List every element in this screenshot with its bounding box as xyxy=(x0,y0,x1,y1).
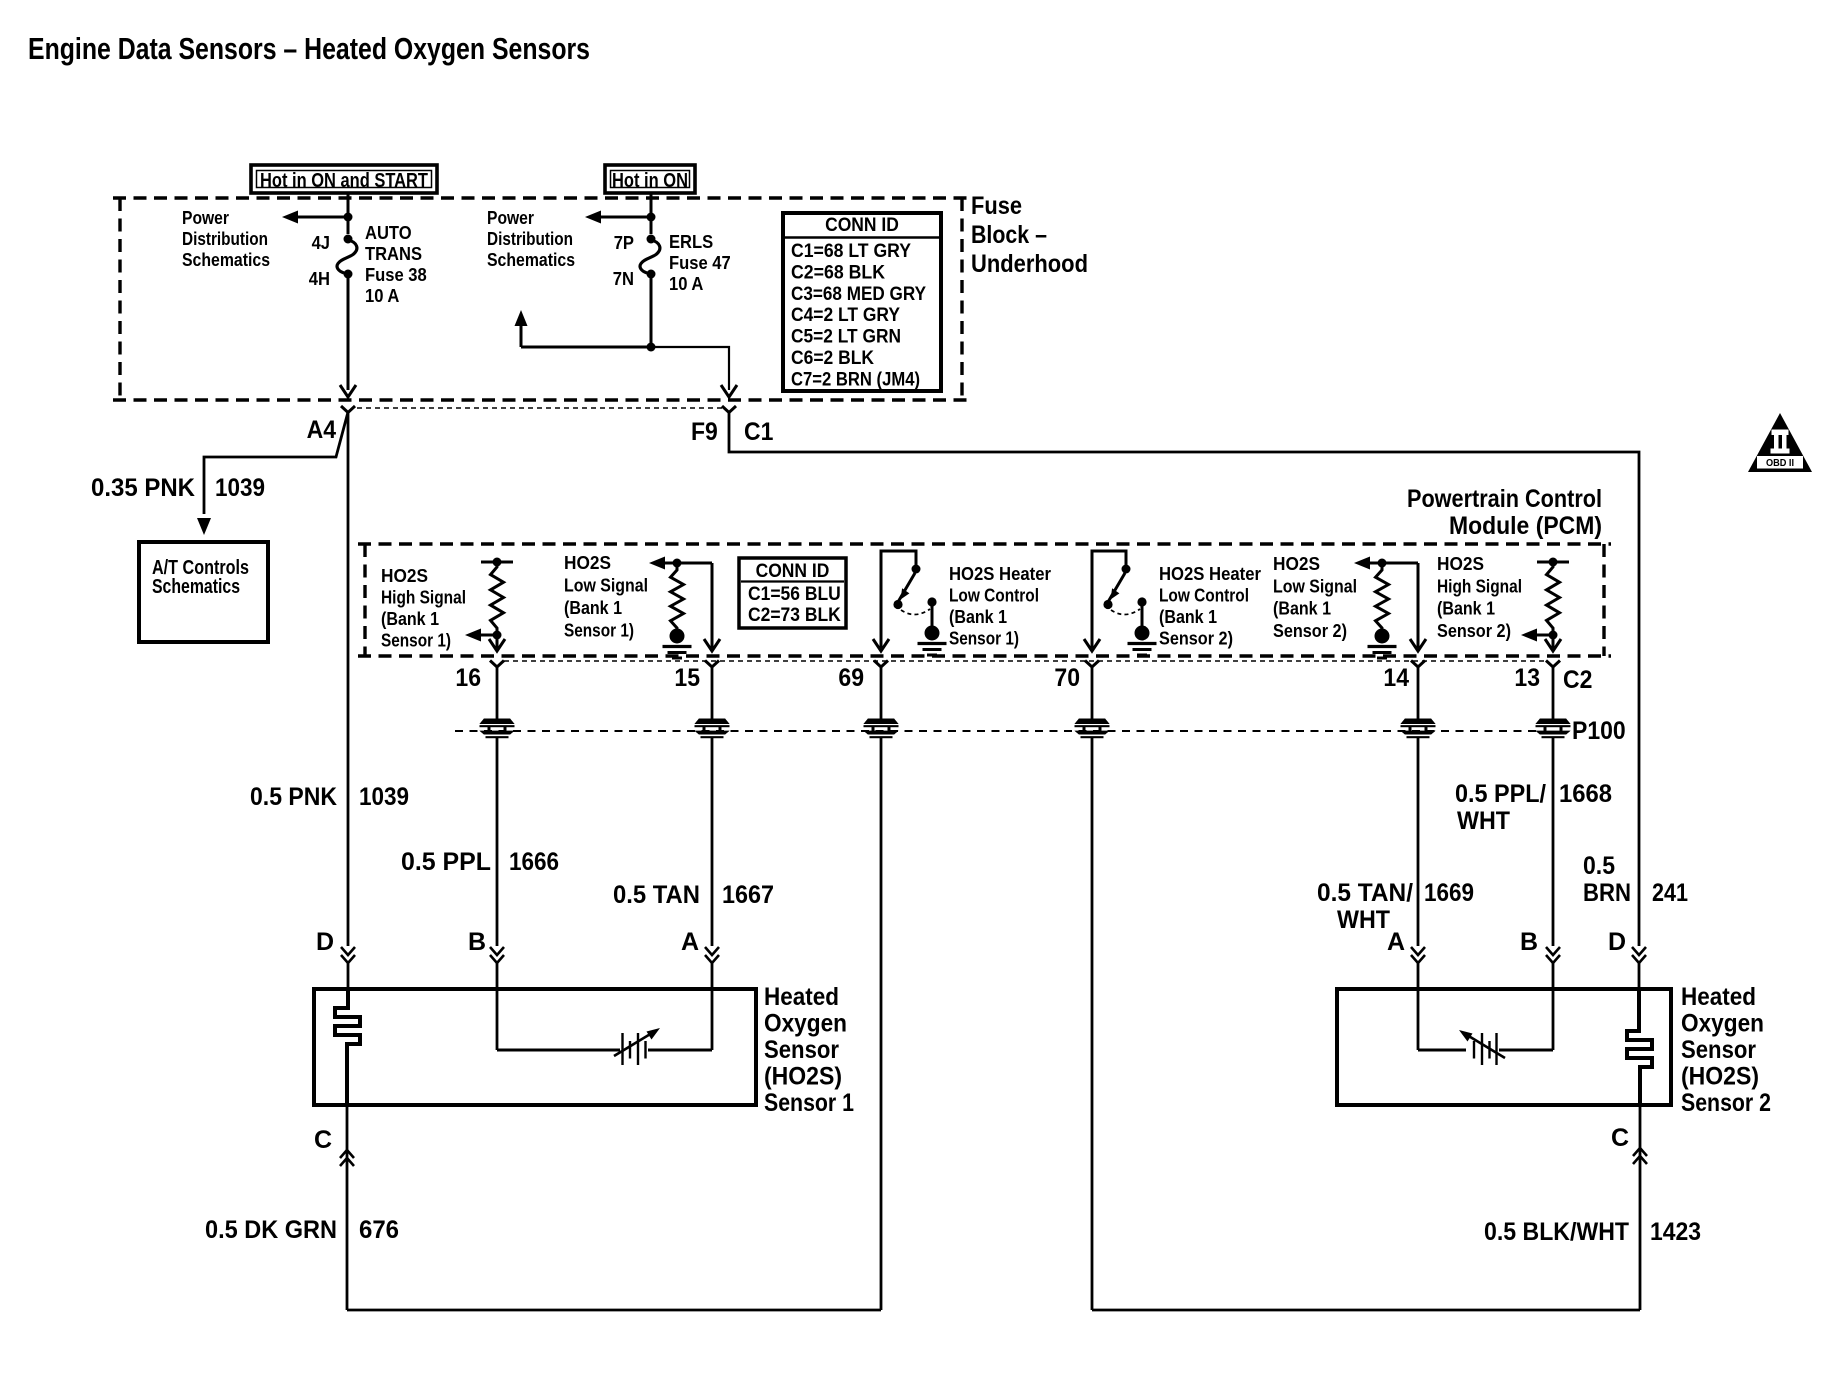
svg-text:C6=2 BLK: C6=2 BLK xyxy=(791,348,874,369)
svg-text:(Bank 1: (Bank 1 xyxy=(564,598,622,618)
svg-text:BRN: BRN xyxy=(1583,879,1631,907)
svg-text:Block –: Block – xyxy=(971,221,1047,249)
svg-text:HO2S Heater: HO2S Heater xyxy=(949,564,1051,584)
svg-text:Distribution: Distribution xyxy=(487,229,573,249)
svg-text:C5=2 LT GRN: C5=2 LT GRN xyxy=(791,327,901,348)
svg-text:CONN ID: CONN ID xyxy=(825,215,899,236)
svg-text:Schematics: Schematics xyxy=(182,250,270,270)
svg-text:14: 14 xyxy=(1383,664,1409,692)
svg-text:0.5 TAN: 0.5 TAN xyxy=(613,881,700,909)
svg-text:HO2S: HO2S xyxy=(1273,554,1320,574)
svg-text:High Signal: High Signal xyxy=(1437,576,1522,596)
svg-text:Distribution: Distribution xyxy=(182,229,268,249)
svg-text:P100: P100 xyxy=(1572,717,1626,745)
svg-text:Sensor 1): Sensor 1) xyxy=(949,629,1019,649)
svg-text:A: A xyxy=(681,928,699,956)
svg-text:Oxygen: Oxygen xyxy=(764,1010,847,1038)
svg-text:WHT: WHT xyxy=(1337,906,1390,934)
svg-text:(Bank 1: (Bank 1 xyxy=(1159,607,1217,627)
svg-text:C: C xyxy=(314,1126,332,1154)
svg-text:Oxygen: Oxygen xyxy=(1681,1010,1764,1038)
svg-text:Schematics: Schematics xyxy=(487,250,575,270)
svg-text:C2=73 BLK: C2=73 BLK xyxy=(748,605,841,626)
svg-text:Low Control: Low Control xyxy=(1159,586,1249,606)
svg-text:15: 15 xyxy=(674,664,700,692)
svg-text:Low Control: Low Control xyxy=(949,586,1039,606)
svg-text:Power: Power xyxy=(182,208,229,228)
svg-text:(HO2S): (HO2S) xyxy=(1681,1063,1759,1091)
svg-text:10 A: 10 A xyxy=(365,286,399,306)
svg-text:0.5 DK GRN: 0.5 DK GRN xyxy=(205,1216,337,1244)
svg-text:CONN ID: CONN ID xyxy=(756,561,830,582)
svg-text:Heated: Heated xyxy=(1681,983,1756,1011)
svg-text:ERLS: ERLS xyxy=(669,232,713,252)
svg-text:1039: 1039 xyxy=(215,474,265,502)
svg-text:1667: 1667 xyxy=(722,881,774,909)
svg-text:70: 70 xyxy=(1054,664,1080,692)
svg-text:Hot in ON: Hot in ON xyxy=(612,170,688,192)
svg-text:16: 16 xyxy=(455,664,481,692)
svg-text:D: D xyxy=(1608,928,1626,956)
svg-text:OBD II: OBD II xyxy=(1766,458,1794,469)
svg-text:Sensor 1: Sensor 1 xyxy=(764,1089,854,1117)
svg-text:D: D xyxy=(316,928,334,956)
svg-text:HO2S: HO2S xyxy=(381,566,428,586)
svg-text:Sensor: Sensor xyxy=(764,1036,839,1064)
svg-text:A4: A4 xyxy=(307,416,336,444)
svg-text:Sensor 2: Sensor 2 xyxy=(1681,1089,1771,1117)
svg-text:C1=56 BLU: C1=56 BLU xyxy=(748,584,841,605)
svg-text:Sensor: Sensor xyxy=(1681,1036,1756,1064)
svg-text:Sensor 2): Sensor 2) xyxy=(1437,621,1511,641)
svg-text:Hot in ON and START: Hot in ON and START xyxy=(260,170,428,192)
svg-text:0.5 PNK: 0.5 PNK xyxy=(250,783,337,811)
svg-text:HO2S: HO2S xyxy=(1437,554,1484,574)
svg-text:Module (PCM): Module (PCM) xyxy=(1449,512,1602,540)
svg-text:4H: 4H xyxy=(309,269,330,289)
svg-text:C1=68 LT GRY: C1=68 LT GRY xyxy=(791,241,911,262)
svg-text:C1: C1 xyxy=(744,418,773,446)
svg-text:1039: 1039 xyxy=(359,783,409,811)
svg-text:69: 69 xyxy=(838,664,864,692)
svg-text:AUTO: AUTO xyxy=(365,223,412,243)
svg-text:1666: 1666 xyxy=(509,848,559,876)
svg-text:(Bank 1: (Bank 1 xyxy=(1437,599,1495,619)
svg-text:(Bank 1: (Bank 1 xyxy=(1273,599,1331,619)
svg-text:10 A: 10 A xyxy=(669,274,703,294)
svg-text:B: B xyxy=(468,928,486,956)
svg-text:Sensor 1): Sensor 1) xyxy=(564,621,634,641)
svg-text:C7=2 BRN (JM4): C7=2 BRN (JM4) xyxy=(791,369,920,390)
svg-text:Sensor 1): Sensor 1) xyxy=(381,631,451,651)
svg-text:Engine Data Sensors – Heated O: Engine Data Sensors – Heated Oxygen Sens… xyxy=(28,31,590,66)
svg-text:TRANS: TRANS xyxy=(365,244,422,264)
svg-text:Low Signal: Low Signal xyxy=(564,576,648,596)
svg-text:Schematics: Schematics xyxy=(152,576,240,598)
svg-text:Powertrain Control: Powertrain Control xyxy=(1407,485,1602,513)
svg-text:Fuse 38: Fuse 38 xyxy=(365,265,427,285)
svg-text:Power: Power xyxy=(487,208,534,228)
svg-text:Low Signal: Low Signal xyxy=(1273,576,1357,596)
svg-text:WHT: WHT xyxy=(1457,807,1510,835)
svg-text:C: C xyxy=(1611,1124,1629,1152)
svg-text:C2: C2 xyxy=(1563,666,1592,694)
svg-text:Underhood: Underhood xyxy=(971,250,1088,278)
svg-text:7P: 7P xyxy=(614,233,634,253)
svg-text:676: 676 xyxy=(359,1216,399,1244)
svg-text:C2=68 BLK: C2=68 BLK xyxy=(791,262,885,283)
svg-text:(Bank 1: (Bank 1 xyxy=(949,607,1007,627)
svg-text:HO2S: HO2S xyxy=(564,553,611,573)
svg-text:13: 13 xyxy=(1514,664,1540,692)
svg-text:C4=2 LT GRY: C4=2 LT GRY xyxy=(791,305,900,326)
svg-text:High Signal: High Signal xyxy=(381,588,466,608)
svg-text:7N: 7N xyxy=(613,269,634,289)
svg-text:1423: 1423 xyxy=(1650,1218,1701,1246)
svg-text:A: A xyxy=(1387,928,1405,956)
svg-text:Heated: Heated xyxy=(764,983,839,1011)
svg-text:F9: F9 xyxy=(691,418,718,446)
svg-text:C3=68 MED GRY: C3=68 MED GRY xyxy=(791,284,926,305)
svg-text:Fuse 47: Fuse 47 xyxy=(669,253,731,273)
svg-text:0.5 BLK/WHT: 0.5 BLK/WHT xyxy=(1484,1218,1629,1246)
svg-text:HO2S Heater: HO2S Heater xyxy=(1159,564,1261,584)
svg-text:0.5 PPL: 0.5 PPL xyxy=(401,848,491,876)
svg-text:0.35 PNK: 0.35 PNK xyxy=(91,474,195,502)
svg-text:1669: 1669 xyxy=(1424,879,1474,907)
svg-text:0.5 TAN/: 0.5 TAN/ xyxy=(1317,879,1413,907)
svg-text:B: B xyxy=(1520,928,1538,956)
svg-text:(HO2S): (HO2S) xyxy=(764,1063,842,1091)
svg-text:Fuse: Fuse xyxy=(971,192,1022,220)
svg-text:4J: 4J xyxy=(312,233,330,253)
svg-text:241: 241 xyxy=(1652,879,1688,907)
svg-text:1668: 1668 xyxy=(1559,780,1612,808)
svg-text:(Bank 1: (Bank 1 xyxy=(381,609,439,629)
svg-text:Sensor 2): Sensor 2) xyxy=(1273,621,1347,641)
svg-text:Sensor 2): Sensor 2) xyxy=(1159,629,1233,649)
svg-text:0.5 PPL/: 0.5 PPL/ xyxy=(1455,780,1546,808)
svg-text:0.5: 0.5 xyxy=(1583,852,1615,880)
